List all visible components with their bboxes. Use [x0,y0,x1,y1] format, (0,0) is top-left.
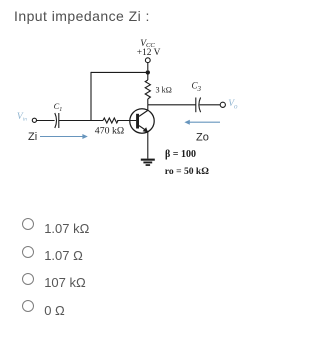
svg-text:+12 V: +12 V [137,48,161,58]
svg-text:Vin: Vin [17,112,27,122]
svg-text:470 kΩ: 470 kΩ [95,126,124,137]
svg-text:Zi: Zi [28,131,37,143]
svg-text:C1: C1 [54,102,63,113]
svg-text:C3: C3 [192,81,202,93]
svg-text:Vo: Vo [228,99,238,111]
svg-text:ro = 50 kΩ: ro = 50 kΩ [165,166,209,177]
svg-text:Zo: Zo [196,131,209,143]
svg-text:3 kΩ: 3 kΩ [156,86,172,95]
svg-text:β = 100: β = 100 [165,149,196,160]
